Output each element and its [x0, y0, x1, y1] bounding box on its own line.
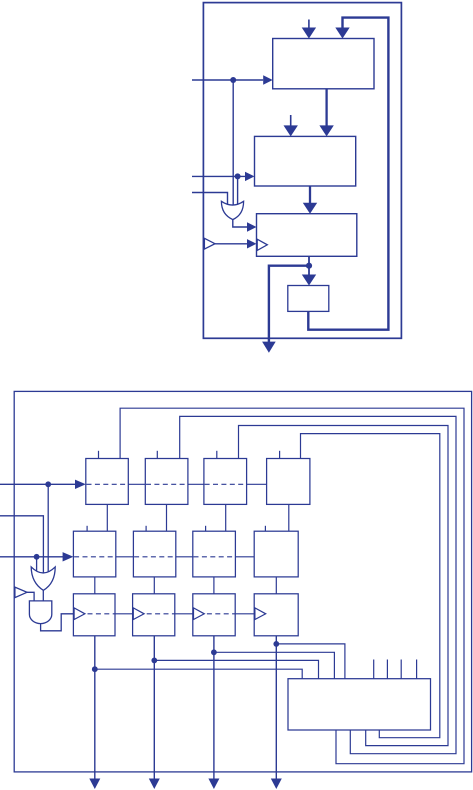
arrowhead input3 into R2C1 [63, 552, 74, 561]
dashed line R2C1 [74, 556, 116, 558]
wire clock to box3 [215, 243, 247, 245]
clock triangle R3C4 [255, 608, 266, 620]
wire R3C3 output down [213, 636, 215, 780]
arrowhead clock into box3 [247, 239, 257, 248]
wire bus out1 to wide box [95, 669, 302, 679]
small box4 [288, 286, 329, 312]
and-gate G3 [29, 601, 51, 624]
stub R2C1 top [86, 526, 88, 531]
stub wide box top 2 [386, 660, 388, 679]
arrowhead into box2 top [319, 125, 333, 136]
wire feed loop D: wide-box to R1C1 [120, 408, 464, 764]
dashed line R3C3 [207, 613, 235, 615]
wire R1C1 to R2C1 [106, 504, 108, 531]
clock triangle R3C2 [133, 608, 144, 620]
wire OR2 output to AND [42, 590, 44, 601]
stub R2C4 top [264, 526, 266, 531]
stub R2C3 top [205, 526, 207, 531]
wire R2C2 to R3C2 [153, 577, 155, 594]
clock input triangle inside box3 [257, 239, 267, 250]
node dot out1 [92, 666, 98, 672]
register R3C2 [133, 594, 175, 636]
wire link R1C3-R1C4 [247, 483, 267, 485]
wire link R2C2-R2C3 [176, 556, 193, 558]
stub R1C1 top [98, 451, 100, 459]
wire node1 down to OR gate [47, 484, 49, 576]
wire R1C3 to R2C3 [225, 504, 227, 531]
wire feed loop A: wide-box to R1C4 [301, 434, 440, 738]
wire from node A down to OR gate [232, 80, 234, 207]
frame (bottom subsystem boundary) [14, 391, 471, 772]
arrowhead output 1 [89, 779, 100, 790]
arrowhead feedback into box1 top [335, 28, 349, 39]
arrowhead into box3 top [303, 203, 317, 214]
wire clock to AND gate [27, 592, 34, 601]
wire bus out2 to wide box [154, 660, 318, 678]
wire bus out4 to wide box [276, 644, 345, 679]
register R2C4 [254, 531, 298, 577]
node dot on wire B [235, 173, 241, 179]
node dot out2 [151, 658, 157, 664]
wire box2 to box3 [309, 186, 311, 204]
wire node3 down to OR gate [36, 557, 38, 574]
register R2C2 [133, 531, 175, 577]
wire link R1C1-R1C2 [128, 483, 145, 485]
or-gate G1 [221, 201, 243, 219]
node dot out3 [211, 649, 217, 655]
stub wide box top 3 [400, 660, 402, 679]
dashed line R3C2 [147, 613, 175, 615]
wire R1C4 to R2C4 [288, 504, 290, 531]
dashed line R2C2 [134, 556, 176, 558]
arrowhead into box1 left [263, 75, 273, 84]
wire link R3C1-R3C2 [115, 613, 133, 615]
arrowhead output 2 [149, 779, 160, 790]
wire R3C1 output down [94, 636, 96, 780]
node dot on wire A [230, 77, 236, 83]
wire link R2C3-R2C4 [235, 556, 254, 558]
wire input 3 horizontal [0, 556, 63, 558]
wire input C with bend to OR gate [192, 193, 228, 207]
clock triangle R3C1 [74, 608, 85, 620]
wide box U1 [288, 679, 431, 730]
wire link R1C2-R1C3 [188, 483, 204, 485]
stub R1C3 top [216, 451, 218, 459]
wire AND output to R3C1 clock [41, 614, 74, 631]
wire feed loop C: wide-box to R1C2 [180, 416, 456, 753]
arrowhead input1 into R1C1 [75, 480, 86, 489]
wire R2C4 to R3C4 [275, 577, 277, 594]
wire R3C2 output down [153, 636, 155, 780]
wire R2C3 to R3C3 [213, 577, 215, 594]
arrowhead output 4 [271, 779, 282, 790]
wire main output of top diagram [269, 266, 309, 343]
stub wide box top 4 [416, 660, 418, 679]
wire input A horizontal [192, 79, 263, 81]
wire node to box4 [308, 266, 310, 276]
stub R2C2 top [145, 526, 147, 531]
dashed line R2C3 [194, 556, 236, 558]
register R3C4 [254, 594, 298, 636]
dashed line R1C1 [87, 483, 129, 485]
clock source triangle on frame [204, 238, 215, 249]
wire feed loop B: wide-box to R1C3 [239, 426, 449, 746]
stub R1C2 top [156, 451, 158, 459]
register R3C3 [193, 594, 235, 636]
wire stub arrow into box1 top [308, 20, 310, 29]
wire bus out3 to wide box [214, 652, 335, 678]
wire box3 down to node [308, 256, 310, 265]
wire R1C2 to R2C2 [166, 504, 168, 531]
wire input 2 with bend to OR gate [0, 516, 43, 577]
register R1C4 [267, 459, 310, 505]
clock source triangle on frame [15, 587, 27, 598]
wire from node B down to OR gate [237, 176, 239, 207]
wire link R3C3-R3C4 [235, 613, 254, 615]
arrowhead OR1 output into box3 [247, 222, 257, 231]
register box1 [273, 39, 374, 89]
node dot below box3 [306, 263, 312, 269]
register R2C3 [193, 531, 236, 577]
register R1C1 [86, 459, 129, 505]
register R1C2 [145, 459, 188, 505]
register R1C3 [204, 459, 247, 505]
dashed line R1C3 [205, 483, 247, 485]
wire R2C1 to R3C1 [94, 577, 96, 594]
node dot input1 [45, 481, 51, 487]
arrowhead into box2 left [245, 172, 255, 181]
wire feedback loop from box4 to box1 [308, 18, 388, 330]
register box3 [257, 214, 357, 257]
register box2 [255, 136, 356, 186]
wire input 1 horizontal [0, 483, 76, 485]
wire stub arrow into box2 top [290, 115, 292, 127]
frame (top subsystem boundary) [203, 3, 401, 339]
wire box1 to box2 [325, 89, 327, 127]
arrowhead into box4 top [302, 275, 316, 286]
dashed line R3C1 [88, 613, 116, 615]
wire R3C4 output down [275, 636, 277, 780]
wire input B horizontal [192, 175, 245, 177]
register R2C1 [73, 531, 115, 577]
node dot out4 [273, 641, 279, 647]
dashed line R1C2 [146, 483, 188, 485]
wire link R3C2-R3C3 [175, 613, 193, 615]
wire OR1 output [233, 220, 247, 227]
or-gate G2 [31, 567, 55, 590]
stub R1C4 top [279, 451, 281, 459]
arrowhead output 3 [208, 779, 219, 790]
clock triangle R3C3 [194, 608, 205, 620]
register R3C1 [73, 594, 115, 636]
arrowhead main output [262, 342, 276, 353]
stub wide box top 1 [373, 660, 375, 679]
wire link R2C1-R2C2 [116, 556, 134, 558]
node dot input3 [34, 554, 40, 560]
